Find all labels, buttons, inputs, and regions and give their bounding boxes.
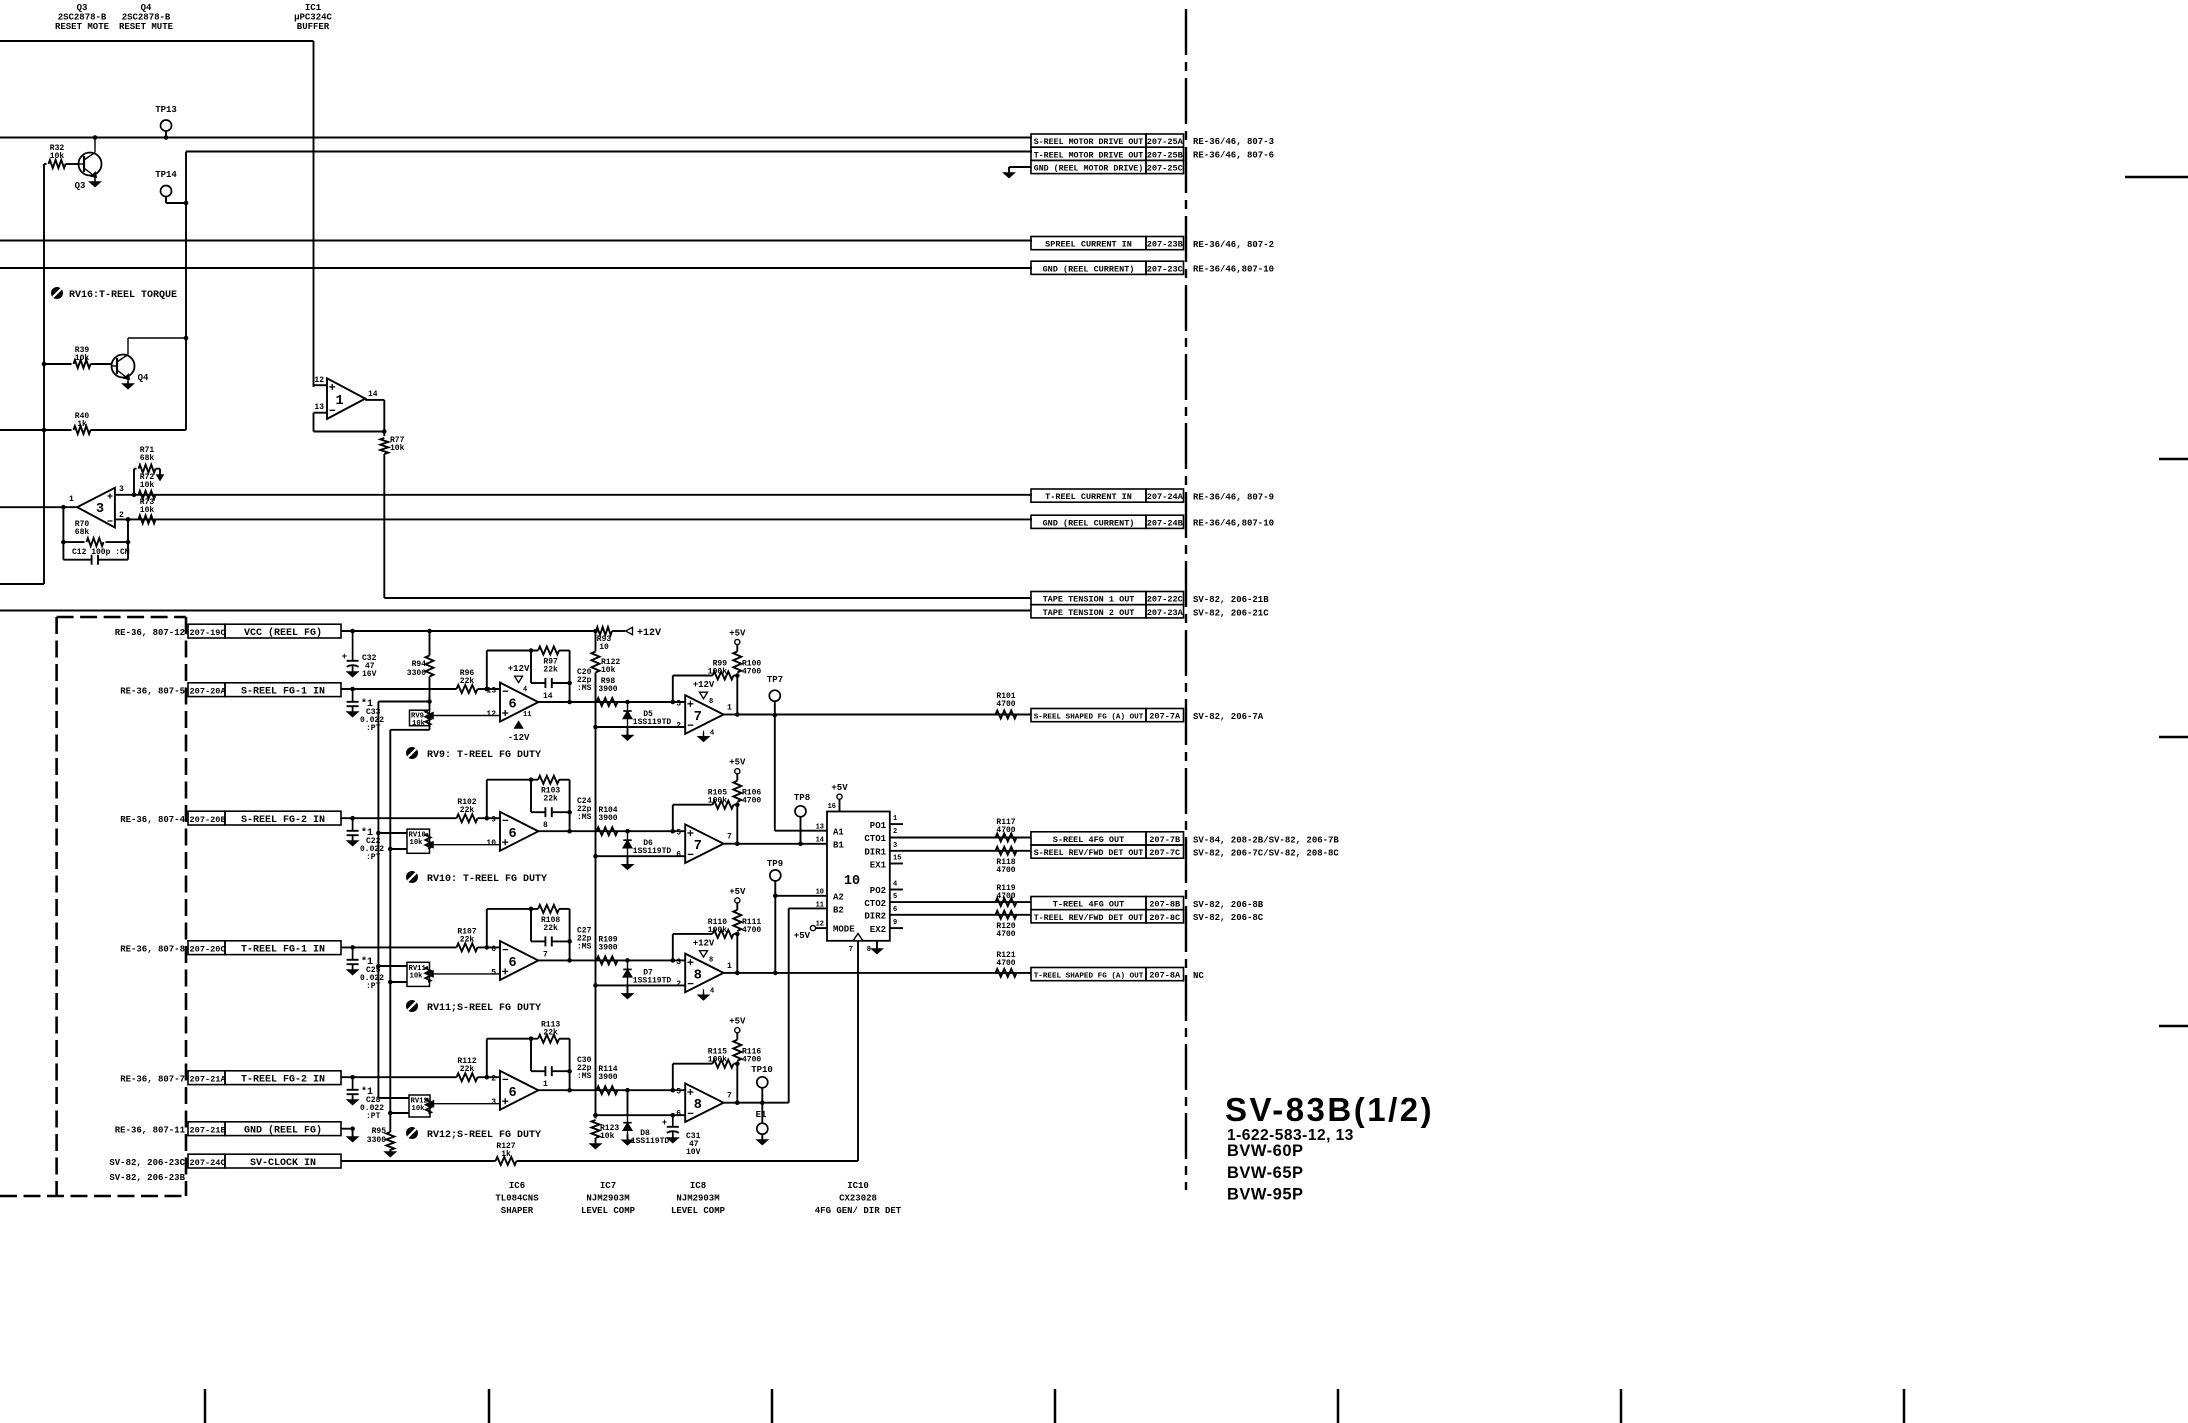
wire comparator output: [724, 841, 740, 846]
svg-text:TP13: TP13: [155, 105, 177, 115]
svg-text:BVW-60P: BVW-60P: [1227, 1142, 1304, 1160]
svg-text:207-21A: 207-21A: [190, 1074, 227, 1084]
svg-text:TAPE TENSION 2 OUT: TAPE TENSION 2 OUT: [1043, 608, 1135, 618]
resistor R71 with arrow: [134, 446, 163, 495]
resistor R116 pull-up 4700 with +5V: [729, 1017, 761, 1065]
op-amp ch1 power +12V/-12V: [508, 664, 532, 743]
connector box 207-20C T-REEL FG-1 IN: [120, 941, 341, 956]
svg-text:4700: 4700: [742, 668, 761, 677]
svg-text:+12V: +12V: [508, 664, 530, 674]
op-amp comparator 8: [676, 939, 732, 1000]
svg-text:14: 14: [816, 837, 824, 845]
capacitor C20 feedback: [531, 651, 592, 694]
svg-text:TP10: TP10: [751, 1065, 773, 1075]
connector box 207-7A S-REEL SHAPED FG (A) OUT: [1031, 709, 1264, 723]
svg-text:68k: 68k: [75, 528, 90, 537]
svg-text:5: 5: [893, 893, 897, 901]
svg-text:4700: 4700: [996, 826, 1015, 835]
fold mark 6: [1620, 1389, 1623, 1423]
wire stub right edge y177: [2125, 176, 2188, 178]
svg-text:10: 10: [486, 839, 496, 848]
connector box 207-22C TAPE TENSION 1 OUT: [1031, 592, 1269, 606]
svg-text:4700: 4700: [742, 926, 761, 935]
annotation RV9 T-REEL FG DUTY: [406, 747, 541, 761]
connector box 207-24B GND (REEL CURRENT): [1031, 515, 1274, 529]
connector box 207-8C T-REEL REV/FWD DET OUT: [1031, 910, 1264, 924]
wire stub right edge y1026: [2159, 1025, 2188, 1027]
op-amp comparator 8: [676, 1083, 732, 1122]
test point TP10: [751, 1065, 773, 1105]
diode D6: [623, 831, 672, 869]
svg-text:2SC2878-B: 2SC2878-B: [58, 13, 107, 23]
svg-text:3: 3: [893, 842, 897, 850]
svg-text:3300: 3300: [407, 669, 426, 678]
svg-text:+: +: [662, 1118, 667, 1128]
svg-text:7: 7: [849, 946, 853, 954]
svg-text:68k: 68k: [140, 454, 155, 463]
connector box 207-20B S-REEL FG-2 IN: [120, 811, 341, 826]
connector box 207-8A T-REEL SHAPED FG (A) OUT: [1031, 968, 1204, 982]
svg-text:Q4: Q4: [141, 3, 152, 13]
resistor R97 feedback: [487, 647, 570, 703]
wire stub right edge y737: [2159, 736, 2188, 738]
svg-text:7: 7: [727, 1092, 732, 1101]
IC10 MODE pin +5V: [794, 926, 827, 942]
svg-text:MODE: MODE: [833, 925, 855, 935]
svg-text:10: 10: [599, 643, 609, 652]
svg-text:SV-82, 206-23B: SV-82, 206-23B: [109, 1173, 185, 1183]
wire DIR1 net with resistor R118: [890, 847, 1031, 875]
svg-text:TP9: TP9: [767, 859, 783, 869]
resistor R113 feedback: [487, 1021, 570, 1091]
wire vertical x44 (mute base bus): [0, 164, 44, 584]
resistor R114 series 3900: [597, 1065, 618, 1094]
resistor R101: [996, 692, 1017, 719]
transistor Q3 title block: [55, 3, 110, 32]
svg-text:4700: 4700: [742, 1056, 761, 1065]
svg-text:+12V: +12V: [693, 939, 715, 949]
op-amp U1 buffer (IC1 section 1): [314, 376, 387, 436]
fold mark 7: [1903, 1389, 1906, 1423]
title SV-83B(1/2): [1225, 1091, 1434, 1128]
connector box 207-23C GND (REEL CURRENT): [1031, 261, 1274, 274]
capacitor C32: [342, 631, 377, 679]
svg-text:8: 8: [867, 946, 871, 954]
svg-text:NJM2903M: NJM2903M: [676, 1194, 719, 1204]
svg-text:10k: 10k: [390, 444, 405, 453]
svg-text:RE-36/46,807-10: RE-36/46,807-10: [1193, 265, 1274, 275]
potentiometer RV9: [378, 699, 500, 730]
svg-text:207-24A: 207-24A: [1147, 492, 1184, 502]
wire VCC (REEL FG) net: [341, 629, 598, 634]
svg-text:5: 5: [491, 968, 496, 977]
svg-text:7: 7: [694, 839, 702, 854]
capacitor C31: [662, 1113, 701, 1157]
svg-text:S-REEL 4FG OUT: S-REEL 4FG OUT: [1053, 835, 1124, 845]
svg-text:2: 2: [676, 722, 681, 731]
svg-text:207-7B: 207-7B: [1149, 835, 1180, 845]
svg-text:1k: 1k: [501, 1150, 511, 1159]
svg-text:6: 6: [509, 698, 517, 713]
svg-text:2: 2: [491, 1075, 496, 1084]
capacitor C12: [63, 542, 129, 565]
svg-text:+5V: +5V: [831, 783, 848, 793]
svg-text:6: 6: [509, 827, 517, 842]
resistor R102 input: [341, 798, 500, 822]
wire vertical x186 (T-REEL drive branch): [185, 152, 187, 431]
title part number: [1227, 1127, 1354, 1144]
wire top loop y41: [0, 40, 314, 42]
test point TP8: [794, 793, 810, 846]
svg-text:RE-36, 807-8: RE-36, 807-8: [120, 944, 185, 954]
wire S-REEL SHAPED FG OUT net: [737, 714, 1031, 716]
svg-text:RV9: T-REEL FG DUTY: RV9: T-REEL FG DUTY: [427, 750, 541, 761]
svg-text:4: 4: [710, 988, 714, 996]
svg-text:SV-82, 206-21B: SV-82, 206-21B: [1193, 595, 1269, 605]
svg-text:GND (REEL MOTOR DRIVE): GND (REEL MOTOR DRIVE): [1034, 164, 1144, 174]
test point TP9: [767, 859, 827, 975]
svg-text:SV-82, 206-21C: SV-82, 206-21C: [1193, 609, 1269, 619]
svg-text:10k: 10k: [410, 839, 424, 847]
svg-text:207-25A: 207-25A: [1147, 137, 1184, 147]
transistor Q4 title block: [119, 3, 174, 32]
capacitor C25 input filter: [347, 947, 385, 991]
svg-text:EX2: EX2: [870, 925, 886, 935]
svg-text:DIR2: DIR2: [864, 912, 886, 922]
svg-text:PO2: PO2: [870, 886, 886, 896]
svg-text:13: 13: [314, 403, 324, 412]
annotation RV12 S-REEL FG DUTY: [406, 1127, 541, 1141]
connector box 207-20A S-REEL FG-1 IN: [120, 683, 341, 698]
svg-text::MS: :MS: [577, 942, 592, 951]
svg-text:SV-82, 206-7C/SV-82, 208-8C: SV-82, 206-7C/SV-82, 208-8C: [1193, 849, 1339, 859]
svg-text:3: 3: [119, 485, 124, 494]
svg-text:4FG GEN/ DIR DET: 4FG GEN/ DIR DET: [815, 1206, 902, 1216]
wire comparator minus input: [593, 1113, 685, 1118]
svg-text:16: 16: [828, 803, 836, 811]
wire vertical x313 from top loop to IC1 input: [313, 41, 315, 387]
transistor Q4: [112, 336, 189, 389]
svg-text:4700: 4700: [996, 700, 1015, 709]
resistor R123: [591, 727, 620, 1149]
svg-text:CX23028: CX23028: [839, 1194, 877, 1204]
svg-text::PT: :PT: [366, 1112, 381, 1121]
svg-text:3: 3: [96, 502, 104, 517]
svg-text:GND (REEL CURRENT): GND (REEL CURRENT): [1043, 518, 1135, 528]
svg-text:207-8A: 207-8A: [1149, 971, 1181, 981]
svg-text:22k: 22k: [543, 795, 558, 804]
wire comparator minus input: [593, 983, 685, 988]
diode D8: [623, 1090, 670, 1146]
svg-text:+12V: +12V: [693, 680, 715, 690]
resistor R95: [367, 1127, 396, 1157]
svg-text:SV-82, 206-8B: SV-82, 206-8B: [1193, 900, 1264, 910]
wire comparator minus input: [593, 854, 685, 859]
resistor R115 comparator feedback: [673, 1048, 740, 1103]
resistor R100 pull-up 4700 with +5V: [729, 629, 761, 677]
connector box 207-23A TAPE TENSION 2 OUT: [1031, 605, 1269, 619]
svg-text:R95: R95: [372, 1127, 387, 1136]
svg-text:10V: 10V: [686, 1148, 701, 1157]
svg-text:207-25B: 207-25B: [1147, 150, 1183, 160]
svg-text:RE-36, 807-7: RE-36, 807-7: [120, 1074, 185, 1084]
svg-text:1SS119TD: 1SS119TD: [633, 976, 672, 985]
svg-text:TP7: TP7: [767, 675, 783, 685]
svg-text:+5V: +5V: [729, 887, 746, 897]
wire S-REEL MOTOR DRIVE OUT net y137.5: [0, 137, 1032, 139]
svg-text:4700: 4700: [996, 930, 1015, 939]
svg-text:SV-83B(1/2): SV-83B(1/2): [1225, 1091, 1434, 1128]
wire CTO1 net with resistor R117: [890, 818, 1031, 842]
svg-text:207-8C: 207-8C: [1149, 913, 1180, 923]
svg-text:SV-82, 206-7A: SV-82, 206-7A: [1193, 712, 1264, 722]
title BVW-95P: [1227, 1186, 1304, 1204]
resistor R39: [42, 346, 112, 368]
svg-text:SV-CLOCK IN: SV-CLOCK IN: [250, 1158, 316, 1169]
svg-text:IC1: IC1: [305, 3, 322, 13]
svg-text:+5V: +5V: [729, 629, 746, 639]
connector box 207-7C S-REEL REV/FWD DET OUT: [1031, 845, 1339, 859]
svg-text:T-REEL FG-2 IN: T-REEL FG-2 IN: [241, 1074, 325, 1085]
fold mark 3: [771, 1389, 774, 1423]
IC7 name block: [581, 1181, 636, 1216]
svg-text:207-7C: 207-7C: [1149, 848, 1180, 858]
svg-text:SHAPER: SHAPER: [501, 1206, 534, 1216]
op-amp U-IC6 6 shaper ch dy=258.4: [491, 941, 548, 980]
resistor R112 input: [341, 1057, 500, 1081]
svg-text:CTO1: CTO1: [864, 834, 886, 844]
svg-text:RE-36/46,807-10: RE-36/46,807-10: [1193, 519, 1274, 529]
svg-text:10k: 10k: [140, 481, 155, 490]
svg-text:2SC2878-B: 2SC2878-B: [122, 13, 171, 23]
svg-text:PO1: PO1: [870, 821, 887, 831]
svg-text:C12 100p :CM: C12 100p :CM: [72, 548, 130, 557]
svg-text:RE-36, 807-12: RE-36, 807-12: [115, 628, 185, 638]
title BVW-60P: [1227, 1142, 1304, 1160]
svg-text:T-REEL FG-1 IN: T-REEL FG-1 IN: [241, 944, 325, 955]
svg-text:E1: E1: [756, 1110, 767, 1120]
resistor R121: [996, 951, 1017, 977]
svg-text:15: 15: [893, 855, 901, 863]
svg-text:14: 14: [543, 692, 553, 701]
connector box 207-21B GND (REEL FG): [115, 1122, 341, 1137]
svg-text:1: 1: [727, 962, 732, 971]
svg-text:207-23C: 207-23C: [1147, 264, 1183, 274]
svg-text::MS: :MS: [577, 684, 592, 693]
resistor R96 input: [341, 669, 500, 693]
fold mark 5: [1337, 1389, 1340, 1423]
svg-text:CTO2: CTO2: [864, 899, 886, 909]
resistor R105 comparator feedback: [673, 789, 740, 844]
svg-text:207-19C: 207-19C: [190, 628, 226, 638]
potentiometer RV11: [376, 962, 500, 986]
capacitor C33 input filter: [347, 689, 385, 733]
svg-text:207-22C: 207-22C: [1147, 595, 1183, 605]
svg-text::MS: :MS: [577, 813, 592, 822]
svg-text:B2: B2: [833, 906, 844, 916]
title BVW-65P: [1227, 1164, 1304, 1182]
test point TP13: [155, 105, 177, 140]
svg-text:10k: 10k: [412, 1105, 426, 1113]
svg-text:+: +: [342, 652, 347, 662]
svg-text:207-23B: 207-23B: [1147, 240, 1183, 250]
resistor R122 (bus): [592, 631, 621, 727]
svg-text:BVW-65P: BVW-65P: [1227, 1164, 1304, 1182]
IC10 pin 16 +5V: [828, 783, 849, 812]
svg-text:RESET MOTE: RESET MOTE: [55, 22, 110, 32]
svg-text:9: 9: [491, 816, 496, 825]
svg-text:6: 6: [509, 1086, 517, 1101]
svg-text:T-REEL SHAPED FG (A) OUT: T-REEL SHAPED FG (A) OUT: [1034, 973, 1144, 981]
svg-text:SV-84, 208-2B/SV-82, 206-7B: SV-84, 208-2B/SV-82, 206-7B: [1193, 835, 1339, 845]
wire shaper output: [538, 1088, 685, 1093]
svg-text:1: 1: [893, 815, 897, 823]
capacitor C22 input filter: [347, 818, 385, 862]
svg-text:S-REEL REV/FWD DET OUT: S-REEL REV/FWD DET OUT: [1034, 848, 1144, 858]
svg-text:RV11;S-REEL FG DUTY: RV11;S-REEL FG DUTY: [427, 1003, 541, 1014]
svg-text:GND (REEL FG): GND (REEL FG): [244, 1124, 322, 1136]
svg-text:IC8: IC8: [690, 1181, 706, 1191]
svg-text:+12V: +12V: [637, 628, 661, 639]
svg-text:SV-82, 206-8C: SV-82, 206-8C: [1193, 913, 1264, 923]
power arrow +12V: [612, 627, 661, 639]
resistor R40: [0, 412, 186, 434]
capacitor C28 input filter: [347, 1077, 385, 1121]
wire TAPE TENSION 1 OUT net y598: [384, 597, 1031, 599]
IC8 name block: [671, 1181, 726, 1216]
svg-text:16V: 16V: [362, 670, 377, 679]
svg-text:11: 11: [816, 902, 824, 910]
wire CTO2 net with resistor R119: [890, 884, 1031, 906]
wire DIR2 net with resistor R120: [890, 911, 1031, 939]
wire SV-CLOCK net with resistor R127: [341, 1142, 858, 1165]
connector box 207-25B T-REEL MOTOR DRIVE OUT: [1031, 147, 1274, 160]
svg-text:RESET MUTE: RESET MUTE: [119, 22, 174, 32]
svg-text:4700: 4700: [742, 797, 761, 806]
svg-text:T-REEL MOTOR DRIVE OUT: T-REEL MOTOR DRIVE OUT: [1034, 151, 1144, 160]
svg-text:8: 8: [709, 698, 713, 706]
svg-text:6: 6: [509, 956, 517, 971]
IC10 pin stubs right: [890, 815, 903, 928]
svg-text:LEVEL COMP: LEVEL COMP: [671, 1206, 726, 1216]
svg-text:A1: A1: [833, 828, 844, 838]
svg-text:4: 4: [523, 686, 527, 694]
svg-text:14: 14: [368, 390, 378, 399]
connector box 207-21A T-REEL FG-2 IN: [120, 1071, 341, 1086]
svg-text:4700: 4700: [996, 959, 1015, 968]
resistor R111 pull-up 4700 with +5V: [729, 887, 761, 935]
svg-text:EX1: EX1: [870, 861, 887, 871]
svg-text:4700: 4700: [996, 866, 1015, 875]
resistor R99 comparator feedback: [673, 660, 740, 715]
fold mark 1: [204, 1389, 207, 1423]
svg-text:T-REEL REV/FWD DET OUT: T-REEL REV/FWD DET OUT: [1034, 913, 1144, 923]
connector box 207-25A S-REEL MOTOR DRIVE OUT: [1031, 134, 1274, 147]
svg-text:1SS119TD: 1SS119TD: [633, 847, 672, 856]
svg-text:2: 2: [119, 511, 124, 520]
svg-text:TL084CNS: TL084CNS: [495, 1194, 539, 1204]
IC10 pin 7 clock input: [849, 934, 863, 1162]
svg-text:μPC324C: μPC324C: [294, 13, 332, 23]
svg-text:207-20C: 207-20C: [190, 944, 226, 954]
svg-text:NC: NC: [1193, 971, 1204, 981]
svg-text:5: 5: [676, 1088, 681, 1097]
svg-text:T-REEL CURRENT IN: T-REEL CURRENT IN: [1045, 492, 1132, 502]
capacitor C24 feedback: [531, 780, 592, 823]
svg-text:BVW-95P: BVW-95P: [1227, 1186, 1304, 1204]
svg-text::MS: :MS: [577, 1072, 592, 1081]
svg-text:GND (REEL CURRENT): GND (REEL CURRENT): [1043, 264, 1135, 274]
op-amp comparator 7: [676, 680, 732, 741]
svg-text:+5V: +5V: [729, 1017, 746, 1027]
connector box 207-24C SV-CLOCK IN: [109, 1154, 341, 1183]
test point TP14: [155, 170, 188, 205]
svg-text:10: 10: [816, 889, 824, 897]
op-amp U-IC6 6 shaper ch dy=0: [486, 683, 552, 722]
svg-text:3: 3: [491, 1098, 496, 1107]
test point TP7: [767, 675, 783, 717]
svg-text:SPREEL CURRENT IN: SPREEL CURRENT IN: [1045, 240, 1132, 250]
svg-text:11: 11: [523, 711, 531, 719]
op-amp comparator 7: [676, 824, 732, 863]
svg-text:RE-36/46, 807-2: RE-36/46, 807-2: [1193, 240, 1274, 250]
fold mark 2: [488, 1389, 491, 1423]
svg-text:DIR1: DIR1: [864, 848, 886, 858]
terminal E1: [756, 1103, 768, 1145]
svg-text:9: 9: [893, 919, 897, 927]
resistor R110 comparator feedback: [673, 918, 740, 973]
dashed board boundary box (left connector): [0, 617, 186, 1196]
IC10 name block: [815, 1181, 902, 1216]
svg-text:BUFFER: BUFFER: [297, 22, 330, 32]
wire comparator output: [724, 1100, 740, 1105]
op-amp U-IC6 6 shaper ch dy=388.2: [491, 1071, 548, 1110]
svg-text:-12V: -12V: [508, 733, 530, 743]
annotation RV16 T-REEL TORQUE: [51, 287, 177, 301]
resistor R104 series 3900: [597, 806, 618, 835]
wire stub right edge y459: [2159, 458, 2188, 460]
op-amp U-IC6 6 shaper ch dy=129.2: [486, 812, 548, 851]
wire ch2 output to IC10 B1: [737, 843, 827, 845]
svg-text:Q4: Q4: [138, 373, 149, 383]
ground for reel motor drive: [1004, 167, 1031, 178]
wire TP7 to IC10 A1: [775, 715, 827, 831]
annotation RV10 T-REEL FG DUTY: [406, 871, 547, 885]
annotation RV11 S-REEL FG DUTY: [406, 1000, 541, 1014]
op-amp IC1 title block: [294, 3, 332, 32]
svg-text:1SS119TD: 1SS119TD: [631, 1137, 670, 1146]
svg-text:8: 8: [694, 968, 702, 983]
svg-text:3900: 3900: [598, 814, 617, 823]
svg-text:10: 10: [844, 874, 860, 889]
svg-text:S-REEL SHAPED FG (A) OUT: S-REEL SHAPED FG (A) OUT: [1034, 714, 1144, 722]
svg-text:10k: 10k: [140, 506, 155, 515]
svg-text:4: 4: [893, 881, 897, 889]
resistor R77: [380, 436, 404, 598]
svg-text:7: 7: [694, 710, 702, 725]
wire TAPE TENSION 2 OUT net y610.5: [0, 610, 1031, 612]
IC6 name block: [495, 1181, 539, 1216]
resistor R93: [596, 627, 612, 652]
svg-text:TAPE TENSION 1 OUT: TAPE TENSION 1 OUT: [1043, 595, 1135, 605]
svg-text:10k: 10k: [412, 720, 426, 728]
svg-text:1: 1: [69, 495, 74, 504]
svg-text:207-8B: 207-8B: [1149, 900, 1180, 910]
resistor R32: [44, 144, 79, 168]
resistor R108 feedback: [487, 905, 570, 961]
svg-text:RE-36, 807-11: RE-36, 807-11: [115, 1125, 186, 1135]
svg-text:TP14: TP14: [155, 170, 177, 180]
